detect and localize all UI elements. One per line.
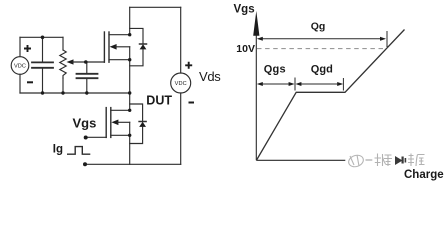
node Q2 drain xyxy=(128,109,131,112)
transistor Q1 channel bar xyxy=(108,32,110,62)
svg-text:VDC: VDC xyxy=(175,81,187,87)
svg-text:Qgd: Qgd xyxy=(311,63,333,75)
wire DUT gate xyxy=(86,136,107,138)
label V1 minus xyxy=(27,81,33,83)
diode D1 xyxy=(130,28,147,65)
svg-text:Ig: Ig xyxy=(53,144,63,156)
transistor Q1 source lead xyxy=(109,59,130,61)
wire right rail lower xyxy=(180,93,182,164)
node C1 top xyxy=(41,36,45,40)
x axis xyxy=(256,159,345,161)
svg-text:Vds: Vds xyxy=(199,69,221,84)
Qgd arrow xyxy=(297,83,342,85)
capacitor C2 xyxy=(77,62,98,93)
voltage source V2 circle xyxy=(171,73,191,93)
watermark hanzi 1 xyxy=(375,154,386,167)
wire left rail bottom xyxy=(19,74,21,93)
wire bottom rail xyxy=(85,163,181,165)
svg-text:Vgs: Vgs xyxy=(234,4,255,16)
watermark icon xyxy=(347,153,372,168)
label V1 plus xyxy=(24,45,31,52)
watermark dark glyph xyxy=(395,156,406,165)
svg-text:10V: 10V xyxy=(236,43,255,55)
Qg arrow xyxy=(259,38,385,40)
watermark hanzi 2 xyxy=(384,155,392,166)
Ig pulse symbol xyxy=(68,147,90,155)
node wiper junction xyxy=(84,60,88,64)
svg-text:DUT: DUT xyxy=(146,94,172,108)
tick Qgd end xyxy=(342,78,344,91)
wire Q1 source to DUT drain xyxy=(129,47,131,111)
diode D2 xyxy=(130,104,146,144)
y axis xyxy=(255,30,257,160)
wire right rail upper xyxy=(180,7,182,73)
y axis arrowhead xyxy=(253,11,259,36)
potentiometer R1 xyxy=(60,37,66,93)
svg-text:Vgs: Vgs xyxy=(73,116,97,131)
svg-text:Qg: Qg xyxy=(311,21,326,33)
node Ig xyxy=(83,162,87,166)
transistor Q2 DUT channel bar xyxy=(110,108,112,138)
wire bottom rail left loop xyxy=(20,92,130,94)
tick Qgs end xyxy=(294,78,296,91)
voltage source V1 circle xyxy=(11,57,29,75)
node C1 bottom xyxy=(41,91,44,94)
label V2 minus xyxy=(189,102,195,104)
transistor Q2 drain lead xyxy=(111,109,130,111)
wire top rail xyxy=(130,6,181,8)
wire top rail left loop xyxy=(20,36,63,38)
capacitor C1 xyxy=(32,37,53,93)
svg-text:VDC: VDC xyxy=(14,64,26,70)
wire DUT source down xyxy=(129,122,131,164)
10V dashed line xyxy=(257,48,385,50)
wire left rail top xyxy=(19,37,21,56)
Qgs arrow xyxy=(259,83,294,85)
node Q1 drain xyxy=(128,33,131,36)
node mid rail junction xyxy=(128,91,131,94)
transistor Q2 body arrow xyxy=(111,120,129,126)
transistor Q2 DUT gate bar xyxy=(105,108,107,138)
node Q1 source xyxy=(128,58,131,61)
tick Qg end xyxy=(386,31,388,47)
transistor Q2 source lead xyxy=(111,134,130,136)
Vgs charge curve xyxy=(257,30,405,161)
label V2 plus xyxy=(185,62,192,69)
svg-text:Qgs: Qgs xyxy=(264,64,286,76)
GRAPH xyxy=(256,30,345,160)
node C2 bottom xyxy=(85,91,88,94)
node pot bottom xyxy=(61,91,64,94)
watermark hanzi 4 xyxy=(416,155,425,167)
node Q2 source xyxy=(128,134,131,137)
transistor Q1 gate bar xyxy=(103,32,105,62)
potentiometer wiper arrow xyxy=(67,59,105,64)
node Vgs probe xyxy=(84,136,88,140)
transistor Q1 drain lead xyxy=(109,7,130,34)
transistor Q1 body arrow xyxy=(110,44,130,50)
svg-text:Charge: Charge xyxy=(404,169,444,181)
watermark hanzi 3 xyxy=(408,154,414,167)
